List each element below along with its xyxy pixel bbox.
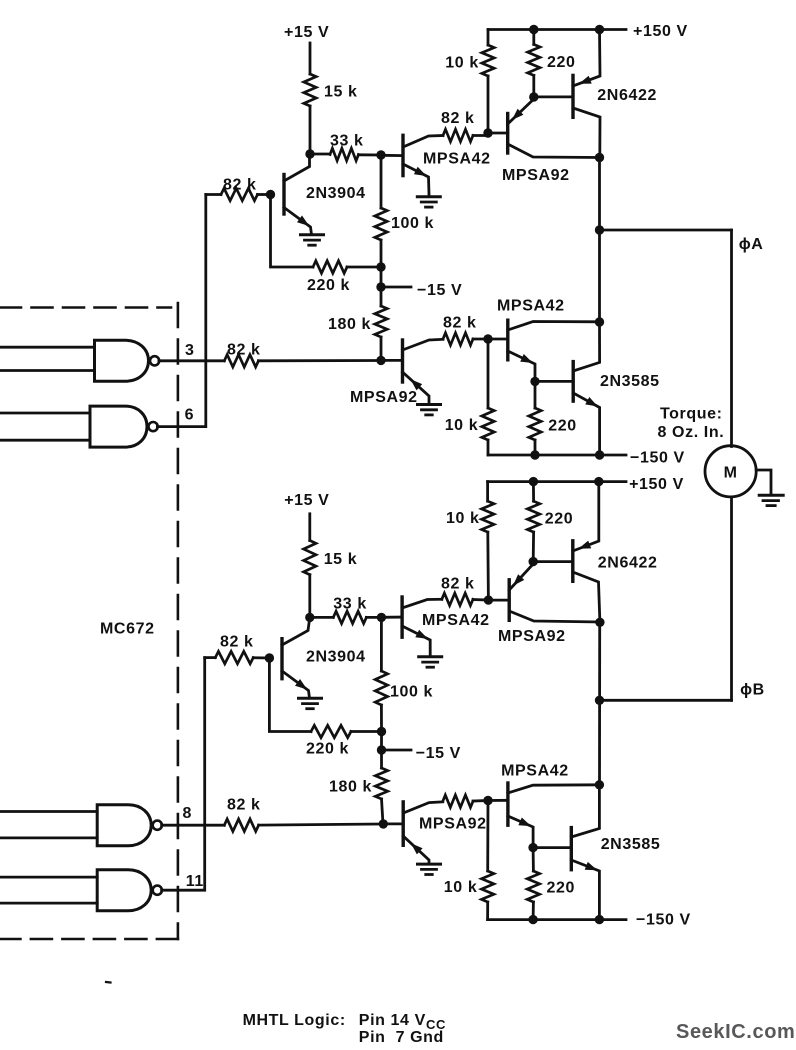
node -15V junction (upper) — [376, 282, 385, 291]
resistor 10 k (lower low) — [482, 801, 494, 920]
wire base feed 2N3585 (upper) — [535, 380, 573, 383]
transistor MPSA42 (lower output) — [508, 783, 600, 848]
svg-text:100 k: 100 k — [391, 215, 434, 232]
svg-text:220: 220 — [547, 54, 576, 71]
node 220 top (upper rail) — [529, 25, 538, 34]
node collector junction (upper, phase A top) — [595, 153, 604, 162]
wire base feed MPSA42 output (upper) — [488, 338, 508, 341]
resistor 82 k (gate11 feed) — [205, 651, 270, 663]
transistor MPSA42 (lower driver) — [402, 597, 442, 655]
wire -15V tick (upper) — [381, 286, 411, 289]
svg-text:ϕB: ϕB — [740, 681, 765, 698]
svg-text:MPSA42: MPSA42 — [423, 151, 491, 168]
wire main vertical phase A — [598, 158, 601, 323]
wire 220 node to 2N6422 base (upper) — [534, 96, 573, 99]
wire motor right lead — [756, 470, 771, 495]
ground MPSA42 emitter (lower) — [419, 655, 442, 658]
NAND gate U1a output pin 3 — [0, 340, 159, 381]
transistor 2N3904 (upper) — [284, 154, 312, 235]
node collector junction (upper, phase A bottom) — [595, 317, 604, 326]
resistor 15 k (lower) — [304, 541, 316, 618]
transistor MPSA42 (upper driver) — [403, 135, 443, 194]
svg-text:MPSA92: MPSA92 — [502, 167, 570, 184]
resistor 220 (lower) — [527, 482, 539, 562]
svg-text:−150 V: −150 V — [630, 450, 685, 467]
svg-text:MPSA92: MPSA92 — [350, 389, 418, 406]
svg-text:2N6422: 2N6422 — [597, 87, 657, 104]
svg-text:8: 8 — [183, 805, 193, 822]
wire base feed MPSA42 (upper) — [381, 154, 403, 157]
transistor MPSA92 (lower left) — [403, 802, 443, 862]
wire gate8 output to 82k — [162, 824, 225, 827]
node 2N6422 emitter rail (upper) — [595, 25, 604, 34]
node MPSA92 base (upper output) — [483, 128, 492, 137]
svg-text:SeekIC.com: SeekIC.com — [676, 1021, 795, 1043]
node 2N3585 base (lower) — [528, 843, 537, 852]
node -15V junction (lower) — [377, 745, 386, 754]
node MPSA42 base (upper output) — [483, 334, 492, 343]
svg-text:180 k: 180 k — [328, 316, 371, 333]
resistor 82 k (gate6 feed) — [206, 188, 271, 200]
svg-text:MHTL Logic:: MHTL Logic: — [243, 1012, 346, 1029]
ground MPSA92 emitter (upper left) — [418, 403, 441, 406]
resistor 82 k (lower output) — [443, 795, 488, 807]
svg-text:33 k: 33 k — [333, 595, 367, 612]
node 2N3585 base (upper) — [530, 377, 539, 386]
svg-text:+15 V: +15 V — [284, 492, 329, 509]
ground 2N3904 emitter (lower) — [299, 697, 322, 700]
svg-text:3: 3 — [185, 342, 195, 359]
svg-text:Pin 14 V: Pin 14 V — [359, 1012, 426, 1029]
transistor MPSA92 (upper output) — [508, 97, 600, 158]
resistor 10 k (lower) — [482, 482, 494, 600]
svg-text:180 k: 180 k — [329, 779, 372, 796]
node 33k/100k junction (upper) — [376, 150, 385, 159]
ground motor — [759, 495, 783, 505]
stray mark — [106, 981, 111, 984]
resistor 220 (upper low) — [529, 381, 541, 455]
svg-text:MPSA92: MPSA92 — [498, 628, 566, 645]
svg-text:33 k: 33 k — [330, 133, 364, 150]
svg-text:15 k: 15 k — [324, 84, 358, 101]
svg-text:6: 6 — [185, 407, 195, 424]
svg-text:−15 V: −15 V — [416, 745, 461, 762]
transistor 2N3904 (lower) — [282, 617, 310, 698]
resistor 82 k (upper output low) — [443, 333, 488, 345]
svg-text:100 k: 100 k — [390, 684, 433, 701]
svg-text:82 k: 82 k — [223, 177, 257, 194]
svg-text:ϕA: ϕA — [739, 236, 764, 253]
wire -150V rail (lower) — [488, 918, 626, 921]
transistor 2N3585 (upper) — [573, 322, 599, 455]
wire +150V rail (upper) — [488, 28, 626, 31]
dashed box MC672 package outline — [0, 303, 178, 939]
wire -150V rail (upper) — [488, 454, 626, 457]
wire base feed MPSA42 (lower driver) — [381, 616, 402, 619]
wire base feed 2N3585 (lower) — [533, 846, 571, 849]
svg-text:220 k: 220 k — [306, 741, 349, 758]
resistor 100 k (lower) — [375, 617, 387, 731]
wire 220 node to 2N6422 base (lower) — [533, 560, 573, 563]
svg-text:+150 V: +150 V — [629, 476, 684, 493]
wire +15V down (lower) — [308, 514, 311, 541]
resistor 10 k (upper) — [482, 30, 494, 134]
node phase A takeoff — [595, 225, 604, 234]
svg-text:220: 220 — [545, 511, 574, 528]
node 220/2N6422 base (lower) — [529, 557, 538, 566]
svg-text:MC672: MC672 — [100, 621, 155, 638]
resistor 220 k (upper) — [271, 195, 382, 274]
svg-text:82 k: 82 k — [227, 797, 261, 814]
resistor 100 k (upper) — [375, 155, 387, 267]
resistor 180 k (lower) — [375, 732, 387, 824]
resistor 180 k (upper) — [375, 267, 387, 360]
node 100k/220k junction (lower) — [377, 727, 386, 736]
resistor 82 k (upper driver collector) — [443, 129, 488, 141]
NAND gate U1b output pin 6 — [0, 406, 158, 447]
resistor 220 k (lower) — [269, 658, 381, 738]
wire base feed MPSA92 (lower left) — [383, 823, 403, 826]
node 15k/33k junction (lower) — [305, 613, 314, 622]
resistor 10 k (upper low) — [482, 339, 494, 455]
transistor MPSA42 (upper output) — [508, 320, 600, 381]
node 33k/100k junction (lower) — [377, 613, 386, 622]
resistor 220 (lower low) — [527, 848, 539, 920]
svg-text:MPSA42: MPSA42 — [497, 298, 565, 315]
svg-text:+15 V: +15 V — [284, 24, 329, 41]
svg-text:10 k: 10 k — [445, 417, 479, 434]
svg-text:+150 V: +150 V — [633, 23, 688, 40]
svg-text:8 Oz. In.: 8 Oz. In. — [658, 424, 725, 441]
wire base feed MPSA92 output (upper) — [488, 132, 508, 135]
wire base feed MPSA42 output (lower) — [488, 799, 508, 802]
node MPSA92 base (lower output) — [484, 595, 493, 604]
svg-text:15 k: 15 k — [324, 551, 358, 568]
transistor 2N6422 (upper) — [573, 30, 600, 158]
wire phase A down to motor — [730, 230, 733, 447]
svg-text:Pin 7 Gnd: Pin 7 Gnd — [359, 1029, 444, 1046]
svg-text:−15 V: −15 V — [417, 282, 462, 299]
node phase B takeoff — [595, 696, 604, 705]
wire phase B horizontal — [600, 699, 732, 702]
svg-text:MPSA42: MPSA42 — [422, 612, 490, 629]
svg-text:2N3585: 2N3585 — [601, 836, 661, 853]
svg-text:Torque:: Torque: — [660, 405, 723, 422]
node 2N3585 emitter rail (lower) — [595, 915, 604, 924]
wire gate11 output up to 82k feed — [162, 658, 205, 891]
resistor 82 k (gate3 feed) — [224, 355, 381, 367]
wire motor to phase B — [730, 497, 733, 700]
node 220/2N6422 base (upper) — [529, 92, 538, 101]
node 100k/220k junction (upper) — [376, 262, 385, 271]
wire base feed MPSA92 output (lower) — [488, 599, 509, 602]
svg-text:M: M — [724, 465, 738, 482]
svg-text:2N6422: 2N6422 — [598, 555, 658, 572]
svg-text:10 k: 10 k — [444, 879, 478, 896]
wire +15V down — [309, 43, 312, 74]
svg-text:220: 220 — [547, 880, 576, 897]
svg-text:MPSA92: MPSA92 — [419, 815, 487, 832]
motor M — [705, 446, 756, 497]
resistor 33 k (lower) — [310, 611, 382, 623]
svg-text:10 k: 10 k — [445, 55, 479, 72]
svg-text:82 k: 82 k — [441, 576, 475, 593]
wire phase A horizontal — [600, 229, 732, 232]
NAND gate U1c output pin 8 — [0, 805, 162, 846]
resistor 33 k (upper) — [310, 148, 381, 160]
svg-text:2N3585: 2N3585 — [600, 373, 660, 390]
transistor MPSA92 (upper left) — [403, 339, 444, 402]
node MPSA92 base (upper left) — [376, 356, 385, 365]
resistor 82 k (gate8 feed) — [224, 819, 383, 831]
node collector junction (lower, phase B top) — [595, 618, 604, 627]
ground 2N3904 emitter (upper) — [301, 233, 324, 236]
svg-text:2N3904: 2N3904 — [306, 649, 366, 666]
transistor 2N6422 (lower) — [573, 482, 600, 622]
wire gate3 output to 82k — [159, 359, 224, 362]
node 220 top (lower rail) — [529, 477, 538, 486]
wire main vertical phase B — [598, 622, 601, 785]
svg-text:11: 11 — [186, 873, 204, 890]
svg-text:82 k: 82 k — [227, 342, 261, 359]
node 220 bottom (lower rail) — [528, 915, 537, 924]
wire -15V tick (lower) — [382, 749, 412, 752]
svg-text:82 k: 82 k — [220, 634, 254, 651]
ground MPSA42 emitter (upper) — [417, 195, 440, 198]
node collector junction (lower, phase B bottom) — [595, 780, 604, 789]
transistor 2N3585 (lower) — [571, 785, 599, 920]
node 2N3904 base (lower) — [265, 653, 274, 662]
node MPSA92 base (lower left) — [379, 819, 388, 828]
node 2N6422 emitter rail (lower) — [594, 477, 603, 486]
svg-text:2N3904: 2N3904 — [306, 185, 366, 202]
node 15k/33k junction (upper) — [305, 149, 314, 158]
svg-text:10 k: 10 k — [446, 510, 480, 527]
svg-text:220: 220 — [548, 418, 577, 435]
resistor 82 k (lower driver collector) — [442, 593, 489, 605]
label Pin 14 Vcc — [359, 1012, 446, 1032]
node 2N3585 emitter rail (upper) — [595, 450, 604, 459]
node 220 bottom (upper rail) — [530, 450, 539, 459]
resistor 15 k (upper) — [304, 74, 316, 154]
svg-text:82 k: 82 k — [443, 315, 477, 332]
wire gate6 output up to 82k feed — [157, 195, 205, 427]
wire +150V rail (lower) — [488, 480, 626, 483]
svg-text:220 k: 220 k — [307, 277, 350, 294]
ground MPSA92 emitter (lower left) — [418, 863, 441, 866]
svg-text:MPSA42: MPSA42 — [501, 763, 569, 780]
transistor MPSA92 (lower output) — [509, 562, 600, 622]
NAND gate U1d output pin 11 — [0, 870, 162, 911]
resistor 220 (upper) — [528, 30, 540, 98]
node MPSA42 base (lower output) — [483, 796, 492, 805]
svg-text:82 k: 82 k — [441, 110, 475, 127]
svg-text:−150 V: −150 V — [636, 912, 691, 929]
node 2N3904 base (upper) — [266, 190, 275, 199]
wire base feed MPSA92 (upper left) — [381, 359, 403, 362]
